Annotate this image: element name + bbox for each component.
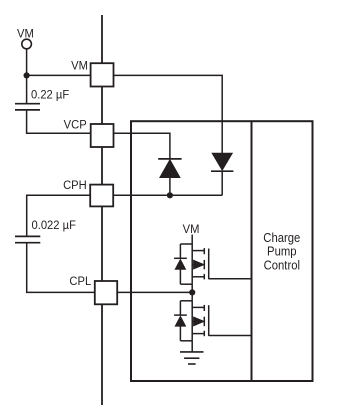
device outline box	[131, 121, 313, 381]
capacitor C2	[15, 236, 40, 242]
wire CPH pin to 0.022uF capacitor	[27, 195, 90, 235]
transistor Q2 (low-side with body diode)	[174, 301, 209, 341]
svg-text:VCP: VCP	[64, 118, 87, 132]
svg-text:Control: Control	[264, 258, 300, 273]
pin box VM	[91, 63, 114, 86]
pin box CPH	[90, 185, 113, 207]
wire CPL pin to Q1/Q2 node	[117, 291, 192, 293]
wire capacitor C1 to VCP	[27, 111, 91, 134]
svg-text:0.022 µF: 0.022 µF	[32, 219, 76, 233]
svg-text:Charge: Charge	[263, 230, 300, 245]
svg-text:0.22 µF: 0.22 µF	[31, 88, 69, 102]
wire Q1 source to Q2 drain	[191, 284, 193, 301]
wire Q2 source to ground	[191, 341, 193, 352]
wire VCP pin to diode D1	[113, 133, 170, 158]
label Charge Pump Control	[263, 230, 300, 272]
svg-text:CPH: CPH	[63, 179, 87, 193]
svg-text:CPL: CPL	[69, 274, 91, 288]
wire diode D1 to CPH net	[169, 178, 171, 196]
wire junction to VM pin	[27, 74, 91, 76]
wire diode D2 cathode to CPH wire	[221, 171, 223, 195]
wire VM to Q1 drain	[191, 235, 193, 244]
wire CPH pin to diode D2 cathode	[113, 194, 222, 196]
transistor Q1 (high-side with body diode)	[174, 244, 209, 284]
svg-text:Pump: Pump	[267, 244, 297, 259]
ground	[180, 352, 204, 364]
svg-text:VM: VM	[17, 27, 34, 41]
capacitor C1	[15, 104, 40, 110]
wire terminal to junction	[26, 49, 28, 75]
diode D2 (anode top, cathode bottom)	[211, 153, 233, 171]
node VM terminal	[22, 39, 32, 49]
pin box CPL	[95, 281, 117, 304]
svg-text:VM: VM	[71, 59, 88, 73]
wire VM rail (main vertical)	[101, 15, 103, 405]
junction dot CPH net	[167, 192, 173, 198]
junction dot CPL net	[189, 289, 195, 295]
wire Q2 gate to control	[209, 335, 252, 337]
junction dot	[24, 72, 30, 78]
svg-text:VM: VM	[183, 222, 200, 236]
wire Q1 gate to control	[209, 278, 252, 280]
charge pump control block divider	[251, 121, 253, 381]
wire capacitor C2 to CPL pin	[27, 243, 95, 292]
diode D1 (anode bottom, cathode top)	[158, 159, 181, 178]
wire VM pin to diode D2	[113, 75, 222, 153]
pin box VCP	[91, 124, 114, 147]
wire junction to capacitor C1	[26, 75, 28, 103]
